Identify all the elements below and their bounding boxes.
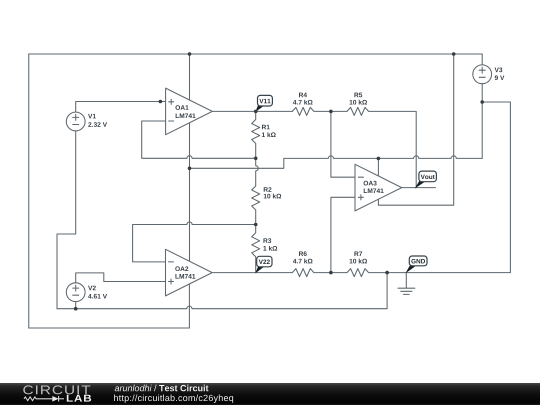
resistor R1 label xyxy=(262,125,270,130)
banner url line xyxy=(114,394,233,402)
wire OA1 feedback loop to node A xyxy=(142,121,256,158)
wire top +9V rail xyxy=(29,53,482,55)
node V22 flag xyxy=(255,266,264,274)
wire V2 minus drop xyxy=(75,302,77,309)
wire OA1 output to R4 xyxy=(212,110,292,112)
wire OA1 V+ pin stub xyxy=(189,54,191,100)
resistor R3 body xyxy=(252,225,260,273)
resistor R5 label xyxy=(354,93,362,98)
wire V3 minus down to net B xyxy=(481,83,483,158)
banner title line xyxy=(115,385,209,392)
logo CIRCUIT text xyxy=(23,385,90,394)
wire OA3 noninverting input from R6 R7 node xyxy=(331,197,355,272)
node GND flag xyxy=(405,266,415,274)
resistor R2 body with hop over net B xyxy=(252,158,260,224)
resistor R5 body and feedback drop xyxy=(347,107,416,187)
resistor R7 label xyxy=(354,251,362,256)
banner background xyxy=(0,383,540,405)
wire V1 plus to OA1 noninverting input xyxy=(76,102,166,113)
voltage source V3 xyxy=(473,65,492,84)
ground symbol xyxy=(398,273,415,295)
wire OA2 output to R6 xyxy=(213,272,292,274)
resistor R3 label xyxy=(263,238,271,243)
wire ground run to R6R7 junction riser xyxy=(57,273,387,309)
op-amp OA1 xyxy=(166,88,213,135)
resistor R1 body xyxy=(252,111,260,158)
wire OA1 V- to OA2 V+ vertical xyxy=(189,123,191,261)
wire V2 plus to OA2 noninverting input xyxy=(76,273,166,283)
wire left rail xyxy=(28,54,30,328)
wire bottom left to OA2 V- pin xyxy=(29,284,190,328)
wire V3 top drop xyxy=(481,54,483,64)
logo resistor and diode glyph xyxy=(24,396,64,402)
wire OA3 V+ pin stub xyxy=(377,158,379,176)
resistor R4 body xyxy=(292,107,347,115)
wire OA3 output xyxy=(402,187,436,189)
wire power net B to OA3 and V3 minus xyxy=(190,156,483,169)
wire OA3 inverting input from R4 R5 node xyxy=(331,111,355,177)
logo LAB text xyxy=(67,395,91,402)
resistor R4 label xyxy=(299,93,307,98)
wire OA2 inverting feedback loop xyxy=(133,222,256,262)
resistor R6 body xyxy=(292,269,347,277)
resistor R6 label xyxy=(299,251,307,256)
resistor R7 body and right rail up to V3 minus xyxy=(347,102,510,277)
node Vout flag xyxy=(415,181,425,189)
voltage source V1 xyxy=(66,112,85,131)
node V11 flag xyxy=(255,105,264,112)
resistor R2 label xyxy=(264,187,272,192)
voltage source V2 xyxy=(66,283,85,302)
op-amp OA3 xyxy=(355,164,402,211)
op-amp OA2 xyxy=(166,249,213,296)
wire OA3 V- pin to top rail xyxy=(378,54,453,205)
wire V1 minus down left to ground run xyxy=(57,131,76,309)
